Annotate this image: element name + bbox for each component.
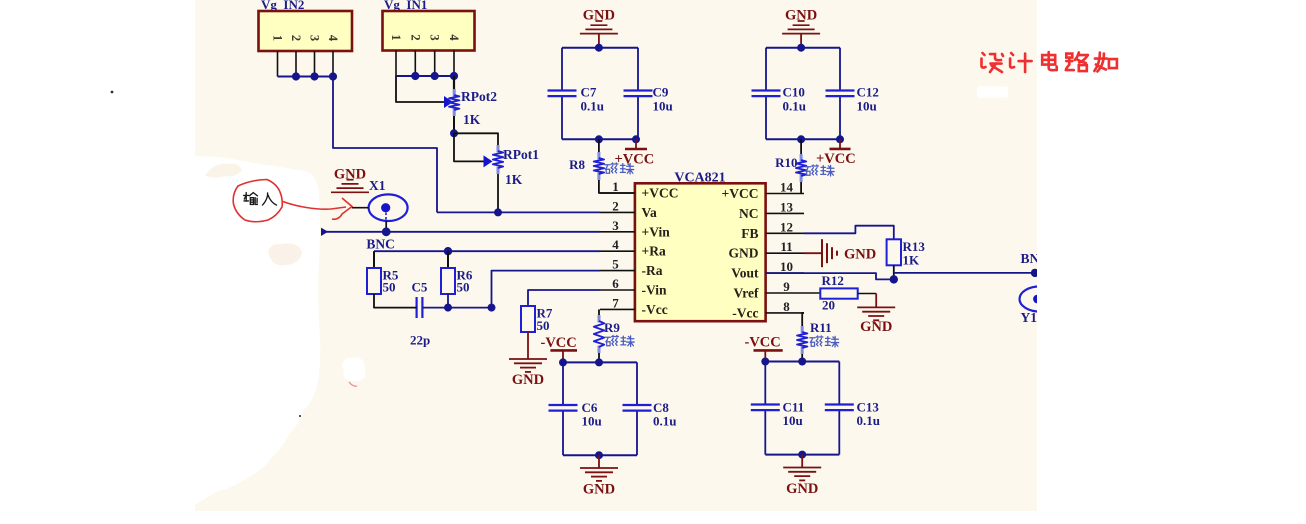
svg-text:X1: X1	[369, 178, 386, 193]
white margin bottom	[0, 511, 1306, 524]
svg-text:R8: R8	[569, 157, 585, 172]
svg-text:1K: 1K	[505, 172, 523, 187]
svg-text:2: 2	[289, 35, 303, 41]
annotation input text	[244, 193, 277, 205]
svg-text:-Ra: -Ra	[642, 263, 663, 278]
chip left pin numbers	[612, 179, 619, 310]
wire RPot2 bottom to junction	[453, 116, 455, 133]
svg-text:Y1: Y1	[1021, 310, 1038, 325]
+Vin wire left end tick	[321, 228, 328, 236]
ground GND above C10 C12	[782, 8, 820, 48]
junction dot C7 top rail	[595, 44, 603, 52]
wire C11 C13 bottom rail	[765, 454, 839, 456]
label R8 cizhu	[605, 163, 634, 174]
op-amp U VCA821	[635, 171, 766, 322]
wire -Vcc pin7 down to R9	[598, 309, 600, 316]
svg-text:0.1u: 0.1u	[581, 99, 604, 114]
svg-text:NC: NC	[739, 206, 759, 221]
svg-text:11: 11	[780, 239, 792, 254]
junction dot X1 on +Vin wire	[382, 227, 391, 236]
white margin right	[1037, 0, 1306, 524]
wire Vout net pin10	[766, 273, 894, 279]
ground GND below C11 C13	[783, 455, 821, 497]
ground GND below R12	[857, 307, 895, 335]
junction dot -Ra corner	[488, 304, 496, 312]
junction dot C10 top rail	[797, 44, 805, 52]
junction dots Vg_IN1 bus	[411, 72, 458, 80]
svg-text:-Vin: -Vin	[642, 283, 667, 298]
svg-text:13: 13	[780, 199, 794, 214]
resistor R6 50	[441, 268, 473, 295]
capacitor C11 10u	[751, 400, 804, 429]
wire R13 bottom	[893, 265, 895, 279]
wire +Ra net pin4	[374, 251, 600, 268]
wire R8 to pin1	[599, 180, 635, 193]
wire RPot1 bottom to Va net	[497, 174, 499, 212]
annotation title text shejidianlu	[982, 52, 1117, 72]
label R11 cizhu	[810, 336, 839, 347]
power -VCC right	[745, 335, 783, 362]
svg-text:1: 1	[271, 35, 285, 41]
wire FB net pin12 to R13	[804, 226, 894, 240]
power +VCC left	[615, 139, 655, 167]
svg-text:+Ra: +Ra	[642, 244, 666, 259]
svg-text:GND: GND	[860, 319, 892, 335]
wire X1 to +Vin net	[385, 221, 387, 232]
svg-text:6: 6	[612, 276, 619, 291]
svg-text:GND: GND	[334, 167, 366, 183]
wire C11 left leg	[764, 362, 766, 455]
beige streak inside white	[205, 164, 242, 178]
svg-text:10: 10	[780, 259, 793, 274]
wire +Vin net pin3	[322, 231, 601, 233]
svg-text:5: 5	[612, 257, 619, 272]
chip right pin stubs	[766, 194, 804, 313]
resistor R5 50	[367, 268, 399, 295]
wire Vg_IN2 bus	[278, 76, 334, 78]
label R10 cizhu	[805, 165, 834, 176]
ferrite bead R11	[797, 320, 832, 354]
svg-text:2: 2	[408, 34, 422, 40]
svg-text:VCA821: VCA821	[674, 171, 725, 186]
svg-text:C7: C7	[581, 85, 597, 100]
svg-text:+VCC: +VCC	[642, 186, 679, 201]
wire C13 right leg	[838, 362, 840, 455]
svg-text:0.1u: 0.1u	[783, 99, 806, 114]
white margin left	[0, 0, 195, 524]
svg-text:GND: GND	[512, 372, 544, 388]
svg-text:GND: GND	[786, 481, 818, 497]
chip right pin numbers	[780, 180, 794, 314]
svg-text:R12: R12	[822, 273, 844, 288]
wire C10 C12 top rail	[766, 47, 840, 49]
resistor R7 50	[521, 306, 553, 334]
capacitor C5 22p	[410, 280, 430, 348]
wire Vg_IN2 pin4 to Va net	[333, 77, 437, 213]
svg-text:1K: 1K	[463, 112, 481, 127]
junction dots C11 top rail	[761, 358, 806, 366]
svg-text:GND: GND	[583, 8, 615, 24]
Vg_IN2 pin stubs	[278, 51, 334, 77]
svg-text:0.1u: 0.1u	[857, 413, 880, 428]
svg-text:1: 1	[612, 179, 619, 194]
wire C12 right leg	[839, 48, 841, 140]
svg-text:50: 50	[537, 318, 550, 333]
junction dots C10 bottom rail	[797, 135, 844, 143]
svg-text:Vref: Vref	[734, 286, 759, 301]
junction dot wire end at Y1	[1031, 269, 1039, 277]
svg-text:GND: GND	[729, 246, 759, 261]
wire C7 C9 top rail	[562, 47, 638, 49]
capacitor C8 0.1u	[623, 400, 677, 429]
schematic beige canvas	[195, 0, 1037, 511]
wire R9 to C6 rail	[598, 353, 600, 362]
capacitor C6 10u	[549, 400, 602, 429]
junction dot R13 bottom	[890, 275, 898, 283]
chip left pin stubs	[600, 193, 635, 309]
svg-text:C12: C12	[857, 85, 879, 100]
wire Va net pin2	[437, 211, 600, 213]
svg-text:3: 3	[428, 34, 442, 40]
svg-text:R9: R9	[604, 320, 620, 335]
white patch top right	[977, 87, 1008, 98]
svg-text:RPot2: RPot2	[461, 89, 497, 104]
stray dot in blob	[299, 415, 301, 417]
potentiometer RPot2 1K	[449, 89, 497, 127]
wire R10 to pin14	[800, 182, 802, 194]
capacitor C12 10u	[826, 85, 879, 114]
connector Vg_IN2	[259, 0, 353, 51]
svg-text:Va: Va	[642, 205, 658, 220]
capacitor C7 0.1u	[548, 85, 604, 114]
annotation arrow to X1	[283, 198, 352, 219]
svg-text:-VCC: -VCC	[541, 335, 577, 351]
wire C6 left leg	[562, 362, 564, 455]
junction dots Vg_IN2 bus	[292, 72, 337, 80]
stray dot top left	[111, 91, 114, 94]
svg-text:4: 4	[612, 237, 619, 252]
wire C9 right leg	[637, 48, 639, 140]
annotation input blob	[233, 180, 282, 222]
connector X1 BNC	[352, 178, 408, 252]
connector Y1 BNC	[1020, 286, 1061, 325]
svg-text:0.1u: 0.1u	[653, 414, 676, 429]
wire C5 to R6 bottom rail	[422, 307, 491, 309]
svg-text:20: 20	[822, 298, 835, 313]
resistor R13 1K	[887, 239, 926, 268]
wire R6 top	[447, 251, 449, 268]
svg-text:C5: C5	[412, 280, 428, 295]
wire R7 to ground	[527, 332, 529, 359]
RPot1 wiper arrow	[484, 155, 493, 167]
potentiometer RPot1 1K	[493, 145, 539, 187]
svg-text:-Vcc: -Vcc	[732, 305, 758, 320]
wire -Vin net pin6	[528, 290, 600, 306]
wire C7 left leg	[561, 48, 563, 140]
svg-text:+Vin: +Vin	[642, 224, 671, 239]
white eraser region around input blob	[195, 156, 320, 505]
svg-text:50: 50	[457, 280, 470, 295]
svg-text:9: 9	[783, 279, 790, 294]
svg-text:1K: 1K	[903, 253, 921, 268]
svg-text:C9: C9	[653, 85, 669, 100]
svg-text:7: 7	[612, 295, 619, 310]
label R9 cizhu	[605, 335, 634, 346]
ground GND below C6 C8	[580, 455, 618, 497]
junction dot below RPot2	[450, 129, 458, 137]
wire Vg_IN1 pin4 down to RPot2	[453, 76, 455, 89]
svg-text:BNC: BNC	[366, 237, 395, 252]
junction dot R6 top	[444, 247, 452, 255]
wire C11 C13 top rail	[765, 361, 839, 363]
capacitor C10 0.1u	[752, 85, 806, 114]
resistor R12 20	[820, 273, 857, 313]
svg-text:GND: GND	[785, 8, 817, 24]
power -VCC left	[541, 335, 578, 362]
junction dots C6 top rail	[559, 358, 603, 366]
svg-text:-VCC: -VCC	[745, 335, 781, 351]
svg-text:14: 14	[780, 180, 794, 195]
wire C8 right leg	[636, 362, 638, 455]
svg-text:1: 1	[389, 34, 403, 40]
svg-text:Vout: Vout	[731, 266, 759, 281]
wire junction to RPot1 wiper	[454, 133, 484, 161]
capacitor C13 0.1u	[825, 400, 880, 429]
svg-text:+VCC: +VCC	[816, 151, 856, 167]
svg-text:12: 12	[780, 219, 793, 234]
wire R12 to ground	[858, 294, 877, 308]
svg-text:GND: GND	[844, 247, 876, 263]
junction dot C11 bottom rail	[798, 451, 806, 459]
wire C6 C8 bottom rail	[563, 454, 637, 456]
junction dots C7 bottom rail	[595, 135, 640, 143]
svg-text:10u: 10u	[857, 99, 877, 114]
svg-text:GND: GND	[583, 482, 615, 498]
wire Vout to Y1	[894, 272, 1035, 274]
svg-text:4: 4	[447, 34, 461, 41]
ferrite bead R8	[569, 139, 604, 180]
svg-text:50: 50	[383, 280, 396, 295]
svg-text:4: 4	[326, 35, 340, 42]
junction dot R6 bottom	[444, 304, 452, 312]
svg-text:10u: 10u	[653, 99, 673, 114]
svg-text:C10: C10	[783, 85, 805, 100]
stray pink mark	[349, 382, 357, 386]
svg-text:FB: FB	[741, 226, 758, 241]
ground GND above C7 C9	[580, 8, 618, 48]
ground GND below R7	[509, 359, 547, 388]
RPot2 wiper arrow	[444, 96, 453, 108]
ground GND at pin11 sideways	[822, 239, 876, 267]
capacitor C9 10u	[624, 85, 673, 114]
svg-text:10u: 10u	[783, 413, 803, 428]
wire junction to RPot1 top	[454, 133, 498, 145]
svg-text:-Vcc: -Vcc	[642, 302, 668, 317]
junction dot RPot1 on Va wire	[494, 208, 502, 216]
junction dot C6 bottom rail	[595, 451, 603, 459]
beige patch below blob	[268, 243, 302, 265]
svg-text:R11: R11	[810, 320, 832, 335]
wire Vref net pin9 to R12	[804, 292, 820, 294]
wire R11 to C11 rail	[801, 354, 803, 362]
svg-text:R10: R10	[775, 155, 797, 170]
svg-text:3: 3	[612, 218, 619, 233]
wire GND net pin11	[804, 252, 822, 254]
ferrite bead R10	[775, 139, 806, 182]
wire -Ra net pin5	[492, 271, 601, 308]
wire C10 C12 bottom rail	[766, 138, 840, 140]
wire R5 bottom rail to C5	[374, 294, 417, 308]
wire C10 left leg	[765, 48, 767, 140]
connector Vg_IN1	[383, 0, 475, 51]
svg-text:8: 8	[783, 299, 790, 314]
wire R6 bottom	[447, 294, 449, 308]
wire C7 C9 bottom rail	[562, 138, 638, 140]
wire C6 C8 top rail	[563, 361, 637, 363]
wire -Vcc pin8 down to R11	[802, 313, 804, 327]
wire Vg_IN1 bus	[396, 75, 454, 77]
svg-text:2: 2	[612, 198, 619, 213]
svg-text:+VCC: +VCC	[722, 186, 759, 201]
svg-text:10u: 10u	[582, 414, 602, 429]
white eraser blob near R5 area	[342, 358, 365, 382]
svg-text:3: 3	[308, 35, 322, 41]
ferrite bead R9	[594, 315, 621, 353]
power +VCC right	[816, 139, 856, 167]
svg-text:22p: 22p	[410, 333, 430, 348]
ground GND above X1	[331, 167, 369, 193]
Vg_IN1 pin stubs	[396, 51, 454, 77]
svg-text:RPot1: RPot1	[503, 147, 539, 162]
wire Vg_IN1 pin1 to RPot2 wiper	[396, 76, 445, 102]
